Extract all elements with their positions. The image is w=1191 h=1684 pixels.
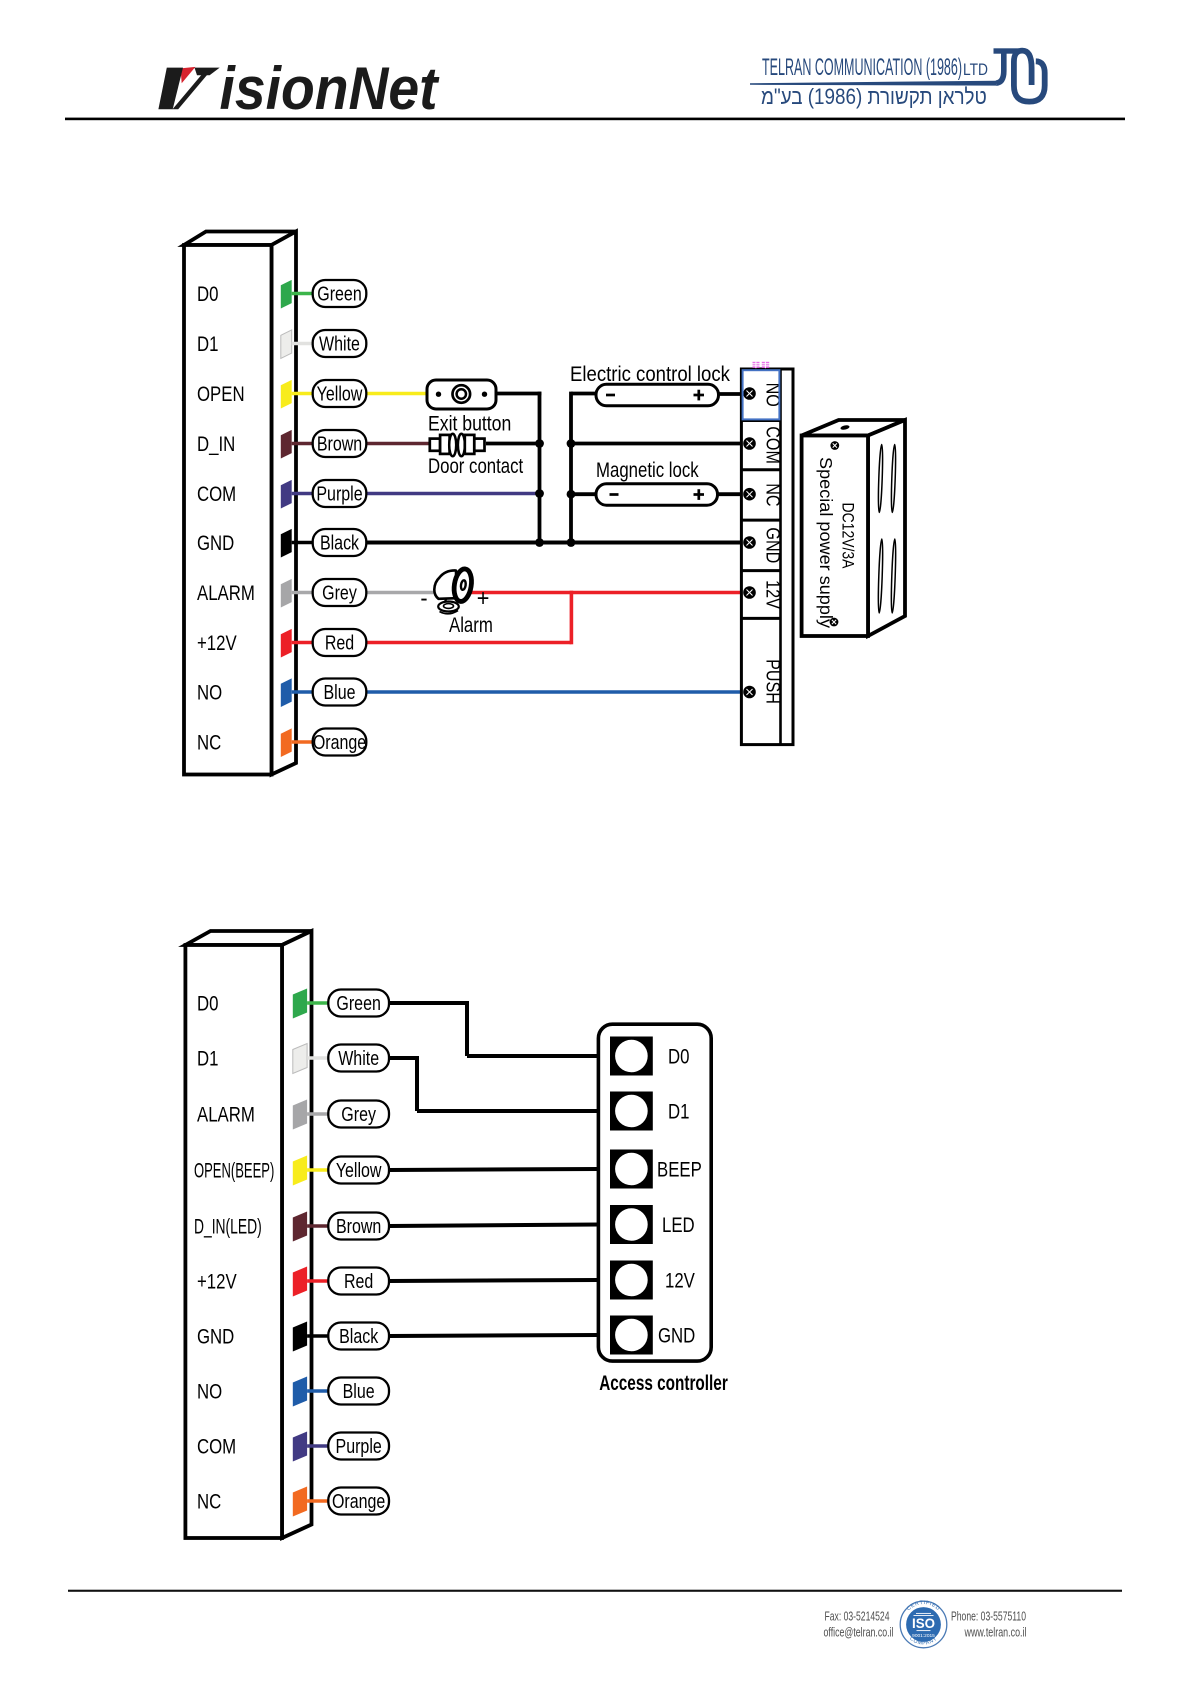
svg-text:Magnetic lock: Magnetic lock — [596, 459, 699, 482]
svg-text:White: White — [319, 333, 360, 355]
svg-text:GND: GND — [658, 1325, 695, 1348]
svg-text:COM: COM — [197, 483, 236, 506]
svg-text:D_IN: D_IN — [197, 433, 235, 456]
svg-text:BEEP: BEEP — [657, 1159, 702, 1182]
svg-text:Brown: Brown — [336, 1216, 381, 1238]
svg-text:D0: D0 — [197, 993, 218, 1016]
svg-text:Access controller: Access controller — [599, 1371, 728, 1395]
svg-text:TELRAN COMMUNICATION (1986): TELRAN COMMUNICATION (1986) — [762, 54, 962, 81]
svg-text:+12V: +12V — [197, 1271, 237, 1294]
svg-text:Blue: Blue — [343, 1381, 375, 1403]
svg-text:LED: LED — [662, 1214, 695, 1237]
svg-text:White: White — [338, 1048, 379, 1070]
svg-text:+12V: +12V — [197, 632, 237, 655]
svg-text:Orange: Orange — [332, 1491, 385, 1513]
svg-text:COM: COM — [197, 1436, 236, 1459]
svg-text:NC: NC — [197, 1491, 221, 1514]
svg-text:Special power supply: Special power supply — [816, 457, 836, 628]
svg-text:D0: D0 — [197, 283, 218, 306]
svg-text:Yellow: Yellow — [317, 383, 363, 405]
svg-text:Brown: Brown — [317, 433, 362, 455]
svg-text:office@telran.co.il: office@telran.co.il — [824, 1625, 894, 1640]
svg-text:9001:2015: 9001:2015 — [912, 1633, 935, 1639]
svg-text:NO: NO — [762, 383, 784, 407]
svg-text:Black: Black — [339, 1326, 379, 1348]
svg-text:PUSH: PUSH — [762, 659, 784, 704]
svg-text:NC: NC — [197, 732, 221, 755]
svg-text:www.telran.co.il: www.telran.co.il — [964, 1625, 1027, 1640]
svg-text:DC12V/3A: DC12V/3A — [839, 503, 858, 570]
svg-text:ISO: ISO — [912, 1616, 935, 1631]
svg-text:Yellow: Yellow — [336, 1160, 382, 1182]
svg-text:ALARM: ALARM — [197, 1104, 255, 1127]
svg-text:12V: 12V — [665, 1270, 695, 1293]
svg-text:Fax: 03-5214524: Fax: 03-5214524 — [825, 1609, 890, 1624]
svg-text:Red: Red — [325, 632, 354, 654]
svg-text:D0: D0 — [668, 1046, 689, 1069]
svg-text:ALARM: ALARM — [197, 582, 255, 605]
svg-text:Door contact: Door contact — [428, 455, 524, 478]
svg-text:NO: NO — [197, 682, 222, 705]
svg-text:Orange: Orange — [313, 732, 366, 754]
svg-text:Green: Green — [317, 283, 361, 305]
svg-text:COM: COM — [762, 426, 784, 464]
svg-text:Purple: Purple — [336, 1436, 382, 1458]
svg-text:OPEN(BEEP): OPEN(BEEP) — [194, 1158, 274, 1182]
svg-text:D_IN(LED): D_IN(LED) — [194, 1215, 262, 1240]
svg-text:Black: Black — [320, 532, 360, 554]
svg-text:Alarm: Alarm — [449, 614, 493, 637]
svg-text:Grey: Grey — [341, 1104, 377, 1126]
svg-text:GND: GND — [197, 1326, 234, 1349]
svg-text:Phone: 03-5575110: Phone: 03-5575110 — [951, 1609, 1026, 1624]
svg-text:Exit button: Exit button — [428, 412, 511, 436]
svg-text:GND: GND — [762, 527, 784, 563]
svg-text:+: + — [477, 584, 490, 611]
svg-text:Purple: Purple — [316, 483, 362, 505]
svg-text:LTD: LTD — [963, 60, 988, 79]
svg-text:Red: Red — [344, 1271, 373, 1293]
svg-text:isionNet: isionNet — [220, 55, 441, 122]
svg-text:D1: D1 — [197, 1048, 218, 1071]
svg-text:Blue: Blue — [323, 682, 355, 704]
svg-text:OPEN: OPEN — [197, 383, 245, 406]
svg-text:12V: 12V — [762, 580, 784, 609]
svg-text:D1: D1 — [668, 1101, 689, 1124]
svg-text:D1: D1 — [197, 333, 218, 356]
svg-text:Green: Green — [336, 993, 380, 1015]
svg-text:NC: NC — [762, 483, 784, 507]
svg-text:NO: NO — [197, 1381, 222, 1404]
svg-text:GND: GND — [197, 532, 234, 555]
svg-text:-: - — [420, 584, 427, 611]
svg-text:Grey: Grey — [322, 582, 358, 604]
